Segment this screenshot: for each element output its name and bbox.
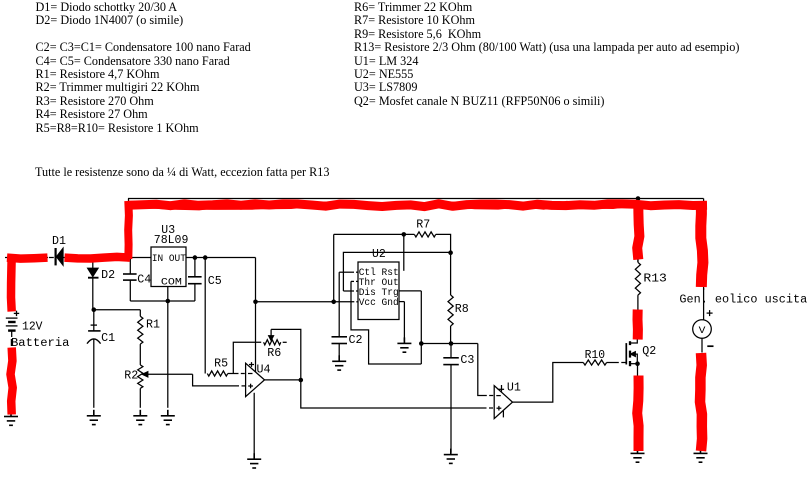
svg-text:R13: R13	[643, 272, 667, 285]
pin labels Thr Out	[359, 277, 399, 289]
capacitor C5	[188, 258, 202, 302]
wire Ctl pin to C2	[339, 272, 358, 337]
svg-text:C4: C4	[137, 274, 151, 287]
wire Gnd pin to ground	[400, 302, 405, 341]
svg-text:12V: 12V	[22, 321, 43, 334]
label C2	[349, 334, 363, 347]
svg-text:Batteria: Batteria	[11, 337, 70, 350]
wire U3 OUT rail	[187, 258, 256, 302]
resistor R10	[583, 360, 625, 365]
label - (output)	[707, 345, 713, 347]
svg-text:U1: U1	[507, 381, 521, 394]
label R10	[585, 349, 606, 362]
wire U4 output and feedback loop	[265, 329, 494, 408]
wire red R13 to Q2 drain	[633, 310, 643, 340]
node Vcc/R7 junction	[331, 300, 336, 305]
svg-text:U4: U4	[257, 363, 271, 376]
wire top bus (black)	[128, 199, 704, 291]
label U1	[507, 381, 521, 394]
svg-text:R7: R7	[416, 218, 430, 231]
label + (output)	[707, 310, 713, 316]
label D1	[52, 235, 66, 248]
label R5	[214, 357, 228, 370]
label 12V	[22, 321, 43, 334]
svg-text:Vcc Gnd: Vcc Gnd	[359, 297, 399, 309]
wire 555 node to U1 inverting input	[421, 344, 493, 396]
wire Thr loop to Trg	[351, 281, 421, 364]
svg-text:R2: R2	[124, 370, 138, 383]
label C1	[101, 332, 115, 345]
ground (C1)	[87, 410, 101, 425]
label C4	[137, 274, 151, 287]
svg-text:R10: R10	[585, 349, 606, 362]
ground (Q2 source)	[631, 447, 645, 462]
resistor R5	[205, 258, 245, 377]
pin label COM	[161, 277, 182, 289]
pin labels Ctl Rst	[359, 267, 399, 279]
capacitor C2	[332, 337, 348, 360]
resistor R8	[448, 253, 453, 344]
wire Trg pin	[400, 291, 422, 364]
wire red bus to R13	[637, 202, 639, 260]
trimmer R2	[138, 365, 193, 408]
svg-text:R5: R5	[214, 357, 228, 370]
wire R2 wiper to U4 + input	[193, 374, 245, 386]
wire generator output branch	[702, 288, 704, 353]
label D2	[101, 269, 115, 282]
op-amp U4	[246, 302, 265, 458]
wire IN to U3	[132, 257, 151, 259]
trimmer R6	[264, 329, 287, 345]
svg-text:R6: R6	[267, 347, 281, 360]
node COM junction	[166, 299, 171, 304]
capacitor C1 electrolytic	[87, 310, 101, 408]
wire red bus riser left	[124, 201, 133, 259]
wire red bus to generator output	[701, 202, 703, 288]
ground (output)	[694, 447, 708, 462]
pin labels Dis Trg	[359, 287, 399, 299]
svg-text:R8: R8	[455, 303, 469, 316]
svg-text:C1: C1	[101, 332, 115, 345]
label U2	[372, 248, 386, 261]
label R6	[267, 347, 281, 360]
wire D2 node to R1	[94, 309, 141, 311]
ground (U4)	[247, 453, 261, 468]
node Q2 source junction	[635, 361, 640, 366]
label C3	[460, 354, 474, 367]
wire Vcc rail (9V)	[256, 301, 359, 303]
label R8	[455, 303, 469, 316]
svg-text:COM: COM	[161, 277, 182, 289]
wire D1 anode stub	[49, 257, 54, 259]
diode D2 1N4007	[88, 261, 99, 310]
node OUT-rail/U4 supply junction	[253, 300, 258, 305]
resistor R1	[138, 310, 143, 365]
battery 12V	[6, 311, 19, 346]
wire U1 output to R10	[513, 363, 584, 403]
diode D1 schottky	[56, 248, 63, 265]
label Batteria	[11, 337, 70, 350]
voltmeter V	[693, 320, 712, 339]
op U2 NE555 box	[358, 262, 399, 320]
svg-text:C5: C5	[208, 275, 222, 288]
wire U4 inverting input / feedback corner	[233, 342, 261, 373]
resistor R7	[334, 232, 451, 302]
label R7	[416, 218, 430, 231]
capacitor C3	[443, 344, 459, 453]
label 78L09	[154, 234, 189, 247]
ground (battery)	[4, 411, 18, 426]
capacitor C4	[123, 258, 137, 302]
wire red generator output to ground	[700, 353, 702, 451]
op-amp U1	[494, 385, 512, 419]
pin label IN OUT	[152, 253, 186, 265]
transistor Q2 mosfet	[626, 338, 637, 377]
label R1	[146, 318, 160, 331]
label V (voltmeter)	[699, 326, 706, 337]
node D2/C1/R1 junction	[92, 307, 97, 312]
svg-text:D2: D2	[101, 269, 115, 282]
svg-text:D1: D1	[52, 235, 66, 248]
wire red battery to D1	[7, 258, 48, 259]
svg-text:IN OUT: IN OUT	[152, 253, 186, 265]
wire red Q2 source to ground	[637, 376, 638, 452]
wire battery positive to D1	[5, 258, 48, 312]
label U3	[161, 224, 175, 237]
node U4 output junction	[299, 378, 304, 383]
op U3 regulator box 78L09	[151, 247, 186, 287]
node R7/Rst junction	[402, 232, 407, 237]
svg-text:R1: R1	[146, 318, 160, 331]
label Gen. eolico uscita	[679, 293, 807, 306]
wire Dis to R7/R8 node	[343, 252, 450, 291]
svg-text:78L09: 78L09	[154, 234, 189, 247]
ground (U2 Gnd)	[397, 337, 411, 352]
wire COM down to ground	[167, 287, 169, 408]
label R2	[124, 370, 138, 383]
svg-text:V: V	[699, 326, 706, 337]
wire Rst pin	[403, 234, 405, 270]
wire red D1 to riser	[65, 257, 131, 259]
svg-text:Gen. eolico uscita: Gen. eolico uscita	[679, 293, 807, 306]
wire ground rail under U3 (C4/COM/C5)	[130, 300, 195, 302]
node bus/R13 junction	[636, 196, 641, 201]
label Q2	[642, 345, 656, 358]
ground (COM)	[161, 410, 175, 425]
node Thr/Trg junction	[419, 341, 424, 346]
label R13	[643, 272, 667, 285]
node R8/C3 junction	[449, 341, 454, 346]
node OUT/R5 junction	[203, 255, 208, 260]
node OUT/C5 junction	[193, 255, 198, 260]
label U4	[257, 363, 271, 376]
svg-text:C2: C2	[349, 334, 363, 347]
pin labels Vcc Gnd	[359, 297, 399, 309]
ground (C2)	[332, 355, 346, 370]
svg-text:C3: C3	[460, 354, 474, 367]
svg-text:U2: U2	[372, 248, 386, 261]
wire red battery negative to ground	[11, 348, 13, 415]
svg-text:Q2: Q2	[642, 345, 656, 358]
node R7/R8/Dis junction	[448, 250, 453, 255]
ground (C3)	[444, 449, 458, 464]
resistor R13	[635, 258, 640, 310]
ground (R2)	[133, 410, 147, 425]
wire red top bus	[128, 204, 707, 207]
label C5	[208, 275, 222, 288]
wire D1 to bus riser (under red)	[64, 257, 133, 259]
